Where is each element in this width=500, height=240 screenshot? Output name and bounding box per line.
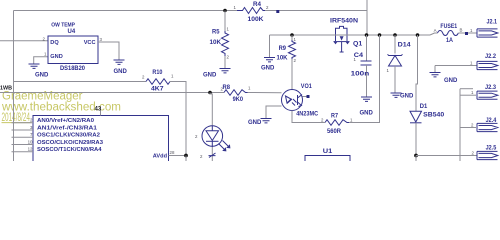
- svg-text:R5: R5: [212, 30, 220, 36]
- svg-text:R7: R7: [331, 113, 339, 119]
- wire J2.5 net: [416, 155, 477, 157]
- resistor R9: [277, 35, 297, 90]
- op-amp U4 box (DS18B20): [43, 22, 103, 72]
- svg-text:GND: GND: [360, 111, 374, 117]
- node junction R5 top: [223, 9, 227, 13]
- connector J2.1: [470, 20, 498, 37]
- svg-text:GND: GND: [50, 54, 62, 60]
- node pad opto collector: [303, 96, 308, 98]
- wire J2.3: [460, 94, 476, 96]
- node junction D1 bottom: [414, 154, 418, 158]
- svg-text:SB540: SB540: [423, 112, 445, 118]
- svg-text:J2.3: J2.3: [485, 85, 497, 91]
- wire DQ net: [0, 40, 48, 42]
- resistor R7: [321, 113, 353, 135]
- wire opto emitter: [292, 111, 325, 123]
- svg-text:J2.4: J2.4: [486, 118, 497, 124]
- ground opto: [261, 119, 272, 123]
- svg-text:D14: D14: [398, 42, 412, 48]
- wire gate corner down: [269, 35, 271, 58]
- node junction D1 top: [416, 33, 420, 37]
- svg-text:J2.2: J2.2: [485, 54, 497, 60]
- transistor Q1 (IRF540N): [330, 19, 363, 53]
- pin 43 stub: [100, 108, 102, 116]
- connector J2.4: [471, 118, 498, 132]
- svg-text:FUSE1: FUSE1: [440, 24, 457, 30]
- wire opto cathode: [266, 106, 282, 119]
- watermark underline: [2, 122, 32, 124]
- svg-text:U1: U1: [323, 149, 333, 155]
- svg-text:AN0/Vref+/CN2/RA0: AN0/Vref+/CN2/RA0: [37, 118, 94, 124]
- ground fuse area: [430, 73, 441, 77]
- svg-text:GND: GND: [248, 120, 262, 126]
- svg-text:VO1: VO1: [301, 84, 313, 90]
- chip U1 left box: [33, 116, 169, 162]
- wire vcc riser: [366, 0, 368, 35]
- node junction LED anode: [208, 91, 212, 95]
- svg-text:OSCO/CLKO/CN29/RA3: OSCO/CLKO/CN29/RA3: [37, 140, 103, 146]
- optocoupler VO1: [282, 84, 319, 118]
- ground D14: [391, 93, 402, 97]
- svg-text:OSC1/CLKI/CN30/RA2: OSC1/CLKI/CN30/RA2: [37, 133, 100, 139]
- node junction R7 rail: [378, 33, 382, 37]
- wire bus right rail: [459, 89, 461, 161]
- wire top rail right: [265, 10, 367, 12]
- svg-text:J2.5: J2.5: [486, 146, 497, 152]
- wire top rail left: [14, 10, 238, 12]
- svg-text:B: B: [460, 28, 463, 33]
- diode D14 (zener): [387, 35, 412, 93]
- sheet border / bus line: [13, 11, 15, 162]
- svg-text:10K: 10K: [210, 40, 222, 46]
- wire rail top stub: [460, 88, 473, 90]
- fuse FUSE1: [434, 24, 463, 44]
- wire R10 net: [14, 81, 147, 83]
- svg-text:100n: 100n: [351, 72, 370, 78]
- node pad R4 right: [276, 10, 279, 13]
- resistor R10: [142, 70, 186, 156]
- node junction C4 top: [365, 33, 369, 37]
- svg-text:9K0: 9K0: [233, 97, 244, 103]
- wire R7 riser: [349, 35, 380, 123]
- svg-text:AVdd: AVdd: [153, 154, 168, 160]
- pin numbers left chip: [28, 118, 33, 152]
- node junction AVdd: [184, 154, 188, 158]
- ground R9 corner: [264, 58, 275, 62]
- ground U4 left: [29, 64, 40, 68]
- svg-text:GND: GND: [35, 73, 49, 79]
- wire WB net: [0, 92, 224, 94]
- svg-text:DS18B20: DS18B20: [60, 66, 86, 72]
- wire gate rail: [270, 34, 431, 36]
- wire opto anode: [248, 92, 282, 94]
- svg-text:R9: R9: [279, 46, 287, 52]
- svg-text:1A: 1A: [446, 38, 454, 44]
- diode D1 (SB540): [410, 35, 445, 156]
- wire AVdd down: [185, 156, 187, 162]
- svg-text:OW TEMP: OW TEMP: [51, 22, 75, 28]
- LED D?: [195, 93, 230, 162]
- svg-text:R4: R4: [253, 2, 262, 8]
- svg-text:GND: GND: [400, 94, 414, 100]
- svg-text:10K: 10K: [277, 56, 289, 62]
- resistor R5: [210, 11, 230, 69]
- wire U4 gnd pin: [34, 57, 48, 64]
- svg-text:D1: D1: [420, 104, 428, 110]
- ground U4 right: [114, 60, 125, 64]
- connector J2.5: [472, 146, 498, 160]
- svg-text:SOSCO/T1CK/CN0/RA4: SOSCO/T1CK/CN0/RA4: [37, 147, 102, 153]
- svg-text:28: 28: [170, 150, 175, 155]
- chip U1 center box: [305, 149, 350, 161]
- svg-text:43: 43: [95, 107, 102, 113]
- svg-text:AN1/Vref-/CN3/RA1: AN1/Vref-/CN3/RA1: [37, 125, 97, 131]
- connector J2.3: [471, 85, 498, 99]
- svg-text:U4: U4: [68, 29, 76, 35]
- svg-text:R10: R10: [152, 70, 163, 76]
- svg-text:GND: GND: [203, 73, 217, 79]
- wire D1 down: [415, 156, 417, 162]
- wire chip pins left: [12, 123, 34, 152]
- node pad J2.1: [465, 32, 468, 35]
- svg-text:10: 10: [28, 139, 33, 144]
- wire J2.2 gnd: [435, 65, 477, 67]
- resistor R4: [234, 2, 269, 23]
- svg-text:R8: R8: [223, 85, 231, 91]
- svg-text:GND: GND: [261, 66, 275, 72]
- svg-text:100K: 100K: [248, 17, 265, 23]
- svg-text:DQ: DQ: [50, 40, 59, 46]
- svg-text:IRF540N: IRF540N: [330, 19, 358, 25]
- ground R5: [220, 69, 231, 73]
- wire U4 vcc pin: [98, 42, 119, 60]
- svg-text:GND: GND: [114, 69, 128, 75]
- node junction D14 top: [393, 33, 397, 37]
- resistor R8: [221, 85, 251, 103]
- svg-text:A: A: [434, 28, 437, 33]
- svg-text:4K7: 4K7: [151, 87, 164, 93]
- node junction R9 top: [290, 33, 294, 37]
- wire J2.4: [460, 127, 476, 129]
- capacitor C4: [351, 35, 372, 97]
- svg-text:560R: 560R: [327, 129, 342, 135]
- connector J2.2: [470, 54, 498, 70]
- svg-text:J2.1: J2.1: [487, 20, 498, 26]
- ground C4: [361, 97, 372, 101]
- wire rail to fuse: [430, 33, 438, 35]
- wire fuse to J2.1: [458, 32, 477, 34]
- wire AVdd pin 28: [169, 155, 187, 157]
- svg-text:Q1: Q1: [353, 41, 363, 47]
- svg-text:12: 12: [28, 147, 33, 152]
- svg-text:4N23MC: 4N23MC: [296, 112, 319, 118]
- svg-text:VCC: VCC: [84, 40, 96, 46]
- svg-text:1WB: 1WB: [0, 86, 12, 92]
- svg-text:GND: GND: [444, 78, 458, 84]
